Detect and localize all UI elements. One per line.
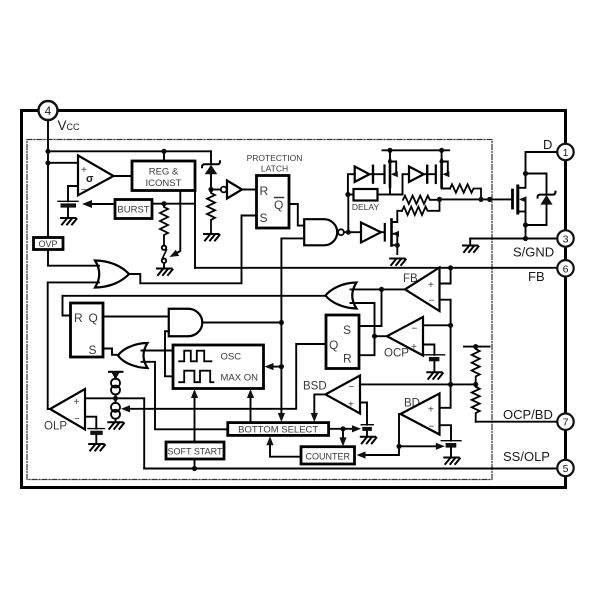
svg-text:−: − — [412, 324, 418, 335]
wire OVP to OR1 — [48, 250, 99, 266]
current source I1 feed — [109, 371, 123, 373]
wire DELAY output — [378, 194, 391, 196]
arrow BSD into BOTTOM SELECT — [311, 413, 318, 422]
ground (current source) — [108, 422, 124, 429]
node Vcc rail junction — [45, 149, 50, 154]
wire latch S from OR3 — [103, 349, 118, 355]
wire REG switch control — [173, 191, 181, 256]
wire Qbar to NAND — [289, 204, 304, 226]
resistor R3 (gate series upper) — [450, 184, 481, 199]
svg-text:D: D — [543, 137, 552, 152]
latch U8 (S Q R) — [326, 315, 359, 369]
wire BSD minus input — [360, 383, 451, 385]
wire AND bottom input from OSC max-on — [165, 331, 173, 376]
wire OCP output — [375, 335, 388, 337]
wire FB plus input — [440, 268, 451, 284]
diode D2 — [355, 167, 370, 182]
ground (BSD cap) — [361, 437, 377, 444]
wire latch Q output to OLP current source — [126, 344, 327, 409]
or-gate OR1 (OVP/OLP) — [95, 261, 129, 288]
wire OCP minus input — [423, 324, 451, 326]
wire COUNTER to BOTTOM SELECT bottom — [270, 442, 301, 457]
svg-text:σ: σ — [86, 173, 94, 185]
wire FB minus to sense line — [440, 300, 451, 408]
svg-text:−: − — [429, 296, 435, 307]
wire OCP plus input — [423, 345, 434, 355]
current source I1 — [111, 379, 120, 388]
node BURST junction — [161, 201, 166, 206]
wire Vcc pin drop (pin 4 to OVP) — [47, 120, 49, 238]
ground (switch) — [157, 269, 173, 276]
block OSC / MAX ON — [173, 345, 264, 389]
arrow SOFT START into OSC — [194, 394, 196, 443]
wire OCP/BD to pin 7 — [476, 421, 558, 423]
svg-text:Q: Q — [329, 338, 338, 352]
or-gate OR2 (latch set) — [326, 283, 357, 309]
wire OR3 top input from OSC — [142, 350, 174, 352]
wire FB bus (pin 6 line) — [195, 267, 558, 269]
ground (op-amp cap) — [61, 218, 77, 225]
svg-text:+: + — [428, 280, 434, 291]
arrow into cap node — [82, 200, 92, 208]
svg-text:SOFT START: SOFT START — [167, 447, 223, 457]
wire NAND output node — [344, 231, 361, 233]
wire driver supply rail — [383, 149, 450, 151]
svg-text:S: S — [260, 211, 268, 225]
node zener junction — [208, 187, 213, 192]
svg-text:OSC: OSC — [221, 352, 242, 363]
wire SOFT START to SS line — [194, 459, 196, 469]
latch U5 (protection latch) — [257, 176, 290, 229]
svg-text:OCP: OCP — [384, 348, 409, 360]
svg-text:OCP/BD: OCP/BD — [503, 407, 553, 422]
svg-text:BOTTOM SELECT: BOTTOM SELECT — [238, 425, 318, 436]
wire REG right edge down to FB line — [194, 191, 196, 268]
current source I2 — [115, 398, 117, 403]
svg-text:SS/OLP: SS/OLP — [503, 449, 550, 464]
svg-text:−: − — [74, 414, 80, 425]
nand gate U6 — [304, 219, 337, 245]
wire SS/OLP line (pin 5) — [144, 468, 557, 470]
latch U9 (left R Q S) — [71, 303, 104, 357]
svg-text:Q: Q — [89, 311, 98, 325]
node op-amp feed junction — [45, 160, 50, 165]
block COUNTER — [301, 447, 355, 464]
zener diode D1 — [210, 151, 212, 163]
wire OLP plus input — [85, 397, 144, 399]
block SOFT START — [166, 442, 224, 459]
wire NAND bottom input — [281, 237, 304, 239]
pin 1 (D) — [557, 144, 573, 160]
resistor R4 (gate series) — [403, 196, 440, 204]
wire BSD output to bottom select — [314, 394, 325, 417]
svg-text:S: S — [343, 323, 351, 337]
inverter U4 — [211, 189, 221, 191]
wire FB output to latch S — [359, 289, 382, 326]
dashed internal boundary — [27, 140, 492, 480]
capacitor C2 (OCP) — [424, 354, 445, 356]
svg-text:7: 7 — [563, 417, 569, 429]
svg-text:ICONST: ICONST — [146, 178, 182, 189]
svg-text:R: R — [260, 184, 269, 198]
pin 5 (SS/OLP) — [557, 460, 573, 476]
node REG supply junction — [161, 149, 166, 154]
arrow BOTTOM SELECT into OSC — [250, 394, 252, 423]
capacitor C3 (BSD) — [361, 424, 373, 426]
wire sense mid tap — [451, 383, 476, 385]
svg-text:Q: Q — [274, 198, 283, 212]
wire gate drive line — [440, 198, 513, 200]
block BOTTOM SELECT — [228, 423, 329, 436]
svg-text:4: 4 — [45, 106, 52, 118]
wire REG supply stub — [163, 151, 165, 161]
svg-text:PROTECTION: PROTECTION — [247, 153, 303, 163]
pin 6 (FB) — [557, 260, 573, 276]
capacitor C1 (op-amp minus) — [58, 200, 78, 202]
capacitor C4 (BD) — [441, 440, 461, 442]
wire OLP plus drop to SS line — [143, 398, 145, 468]
svg-text:+: + — [74, 397, 80, 408]
wire FB output — [351, 288, 406, 290]
svg-text:R: R — [74, 311, 83, 325]
svg-text:−: − — [349, 382, 355, 393]
ground (zener resistor) — [204, 234, 220, 241]
wire op-amp output — [114, 175, 133, 177]
svg-text:3: 3 — [563, 234, 569, 246]
resistor R2 (zener load) — [207, 190, 215, 234]
svg-text:+: + — [348, 400, 354, 411]
arrow Q line into current source — [121, 405, 130, 412]
resistor R7 (sense lower) — [472, 384, 480, 421]
comparator OLP — [50, 389, 85, 430]
wire BSD plus input — [360, 403, 367, 425]
capacitor C5 (OLP) — [88, 428, 105, 430]
svg-text:1: 1 — [563, 147, 569, 159]
ground (OLP cap) — [89, 444, 105, 451]
and-gate AND1 — [169, 309, 203, 337]
svg-text:COUNTER: COUNTER — [306, 452, 351, 462]
wire BURST output node — [152, 203, 195, 205]
ground (source) — [463, 246, 479, 253]
svg-text:MAX ON: MAX ON — [221, 373, 259, 384]
svg-text:S/GND: S/GND — [513, 245, 554, 260]
wire OLP to OR1 — [48, 282, 99, 409]
pin 3 (S/GND) — [557, 230, 573, 246]
op-amp U1 — [78, 155, 114, 195]
wire BD node to counter reset cap — [399, 445, 439, 447]
svg-text:+: + — [411, 342, 417, 353]
svg-text:+: + — [428, 405, 434, 416]
wire delay node to diode D2 — [348, 174, 355, 194]
switch SW1 — [162, 246, 166, 250]
transistor Q4 (power MOSFET) — [511, 190, 514, 208]
ground (OCP cap) — [427, 372, 443, 379]
buffer U7 — [361, 223, 381, 243]
wire AND output — [202, 322, 281, 324]
arrow BOTTOM SELECT to COUNTER — [342, 429, 344, 441]
wire BD output — [361, 414, 401, 455]
svg-text:REG &: REG & — [149, 167, 179, 178]
svg-text:LATCH: LATCH — [261, 164, 288, 174]
arrow into COUNTER right — [357, 451, 366, 458]
IC outer frame — [22, 111, 566, 488]
arrow drive into BOTTOM SELECT — [278, 413, 285, 422]
wire BURST to cap node — [92, 203, 115, 205]
arrow into BSD cap node — [352, 425, 361, 432]
svg-text:−: − — [81, 185, 87, 196]
transistor Q1 (pull-down driver) — [384, 224, 386, 241]
svg-text:S: S — [89, 343, 97, 357]
wire NAND output up to delay node — [347, 195, 349, 233]
or-gate OR3 (latch left set) — [118, 343, 148, 368]
transistor Q2 (upper driver 1) — [389, 150, 391, 160]
comparator OCP — [387, 317, 423, 356]
resistor R5 (gate pull-down) — [402, 199, 440, 215]
ground (pull-down driver) — [390, 259, 406, 266]
svg-text:−: − — [429, 422, 435, 433]
arrow into OSC right edge — [270, 366, 282, 368]
wire latch Q to AND — [103, 316, 169, 318]
svg-text:BSD: BSD — [303, 381, 327, 393]
wire OR2 bottom input — [351, 303, 375, 355]
wire op-amp minus input — [68, 186, 78, 201]
zener diode D4 (body) — [526, 174, 547, 195]
resistor R6 (sense upper) — [472, 347, 480, 385]
diode D3 — [403, 174, 410, 194]
svg-text:R: R — [343, 352, 352, 366]
svg-text:FB: FB — [528, 269, 545, 284]
svg-text:6: 6 — [563, 263, 569, 275]
block BURST U3 — [115, 200, 152, 219]
block REG & ICONST U2 — [132, 161, 195, 191]
wire AND output vertical (NAND / bottom select) — [280, 238, 282, 417]
svg-text:BURST: BURST — [117, 205, 149, 216]
wire S/GND — [470, 238, 557, 240]
node delay junction — [345, 192, 350, 197]
wire Vcc rail — [48, 150, 211, 152]
svg-text:OVP: OVP — [38, 239, 57, 249]
block DELAY — [354, 189, 378, 201]
svg-text:DELAY: DELAY — [352, 202, 380, 212]
wire BD minus input — [440, 425, 452, 441]
wire BOTTOM SELECT output to BSD cap — [329, 428, 355, 430]
arrow into BD cap — [436, 443, 445, 450]
wire OR3 bottom input from BOTTOM SELECT — [142, 362, 228, 430]
pin 4 (Vcc) — [39, 101, 58, 120]
svg-text:OLP: OLP — [44, 421, 67, 433]
svg-text:5: 5 — [563, 463, 569, 475]
ground (BD cap) — [444, 458, 460, 465]
transistor Q3 (upper driver 2) — [441, 150, 443, 160]
pin 7 (OCP/BD) — [557, 414, 573, 430]
resistor R1 (burst divider) — [160, 204, 168, 246]
block OVP — [34, 238, 64, 250]
wire OR2 output bus to left latch R — [63, 296, 326, 316]
wire OLP minus input — [85, 417, 96, 429]
wire OR1 output to protection latch S — [129, 216, 257, 284]
arrow switch control — [170, 250, 180, 257]
wire op-amp plus input — [48, 162, 78, 164]
resistor divider stub — [464, 346, 490, 348]
